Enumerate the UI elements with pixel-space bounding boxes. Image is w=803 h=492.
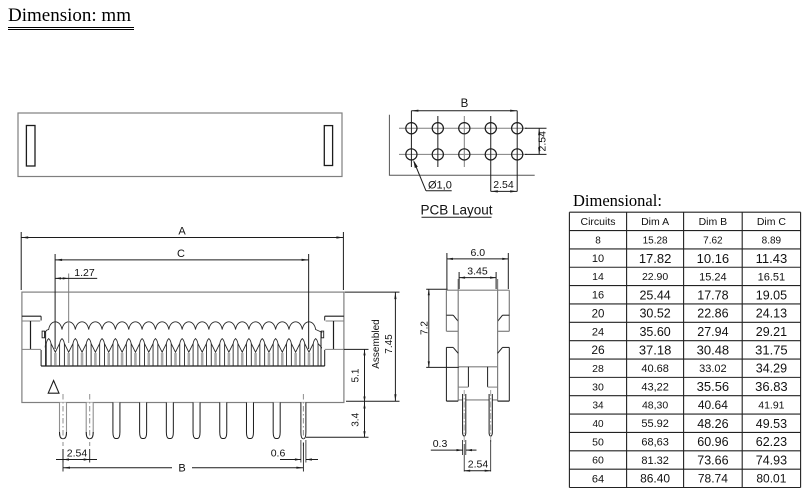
front view: bottom pins row (60, 403, 94, 439)
top view: right polarizing slot (324, 126, 332, 166)
side view: inner walls (457, 279, 459, 401)
svg-text:17.82: 17.82 (639, 251, 672, 266)
pcb hole pad row1 col5 (512, 123, 523, 134)
svg-text:37.18: 37.18 (639, 343, 672, 358)
pcb row centerline top (399, 127, 527, 129)
pcb hole pad row2 col3 (459, 149, 470, 160)
pcb hole pad row1 col1 (406, 123, 417, 134)
side dim 3.45 line (459, 277, 496, 279)
svg-text:62.23: 62.23 (756, 435, 787, 449)
svg-text:40.64: 40.64 (698, 398, 728, 412)
svg-text:Dim A: Dim A (641, 216, 669, 228)
front dim 5.1 line (364, 349, 366, 402)
svg-text:17.78: 17.78 (697, 288, 728, 302)
title: Dimension: mm (8, 5, 134, 27)
svg-text:7.45: 7.45 (384, 334, 395, 354)
svg-text:3.4: 3.4 (351, 412, 362, 426)
side dim 7.2 line (428, 289, 430, 367)
table heading (573, 191, 662, 211)
svg-text:43,22: 43,22 (641, 382, 669, 394)
pcb column centerline 3 (463, 116, 465, 167)
side dim 7.2 extension lines (426, 288, 447, 290)
svg-text:2.54: 2.54 (67, 448, 88, 460)
svg-text:2.54: 2.54 (493, 179, 514, 191)
svg-text:2.54: 2.54 (537, 131, 549, 152)
pcb row centerline bottom (399, 153, 527, 155)
front dim 2.54 extension lines (62, 449, 64, 463)
pcb hole diameter callout underline (426, 190, 452, 192)
svg-text:31.75: 31.75 (755, 343, 788, 358)
side dim 2.54 line (464, 470, 491, 472)
svg-text:C: C (177, 248, 185, 260)
svg-text:15.28: 15.28 (643, 235, 668, 246)
svg-text:19.05: 19.05 (756, 288, 787, 302)
svg-text:Assembled: Assembled (371, 319, 382, 368)
svg-text:30: 30 (592, 381, 604, 393)
svg-text:40: 40 (592, 419, 604, 430)
svg-text:68,63: 68,63 (641, 437, 669, 449)
svg-text:Dim B: Dim B (699, 216, 728, 228)
svg-text:2.54: 2.54 (468, 458, 489, 470)
svg-text:29.21: 29.21 (756, 325, 787, 339)
svg-text:40.68: 40.68 (641, 363, 669, 375)
dimensional table grid (569, 212, 800, 487)
svg-text:16.51: 16.51 (758, 271, 786, 283)
front view: first pins tip shading (60, 432, 67, 439)
svg-text:30.48: 30.48 (697, 343, 730, 358)
svg-text:14: 14 (592, 271, 604, 283)
pcb hole pad row2 col4 (485, 149, 496, 160)
svg-text:48,30: 48,30 (642, 400, 668, 412)
svg-text:49.53: 49.53 (756, 417, 787, 431)
svg-text:0.3: 0.3 (433, 438, 448, 450)
front dim assembled extension lines (345, 291, 400, 293)
front dim 2.54 line (56, 459, 97, 461)
front dim A extension lines (20, 232, 22, 290)
side view: top block outline (446, 289, 509, 291)
side view: inner cavity details (458, 366, 497, 368)
front dim 5.1 extension line (344, 348, 369, 350)
front dim B extension lines (62, 449, 64, 472)
pcb hole pad row1 col4 (485, 123, 496, 134)
svg-text:55.92: 55.92 (641, 418, 669, 430)
pcb hole pad row1 col2 (432, 123, 443, 134)
svg-text:80.01: 80.01 (756, 472, 786, 486)
svg-text:24: 24 (592, 327, 604, 339)
svg-text:11.43: 11.43 (756, 251, 788, 266)
svg-text:41.91: 41.91 (758, 400, 784, 412)
pcb dim 2.54 bottom line (491, 190, 517, 192)
svg-text:6.0: 6.0 (470, 247, 485, 259)
svg-text:35.56: 35.56 (697, 379, 730, 394)
side dim 3.45 extension lines (458, 272, 460, 289)
svg-text:64: 64 (592, 473, 604, 485)
front dim 0.6 extension lines (300, 440, 302, 463)
svg-text:25.44: 25.44 (639, 288, 670, 302)
svg-text:B: B (461, 98, 469, 110)
pcb dimension B line (411, 110, 517, 112)
front dim C line (55, 259, 309, 261)
svg-text:74.93: 74.93 (756, 454, 787, 468)
side dim 6.0 extension lines (446, 253, 448, 289)
front view: wire scallop profile row (45, 322, 323, 333)
svg-text:0.6: 0.6 (271, 448, 286, 460)
svg-text:PCB Layout: PCB Layout (420, 203, 492, 218)
svg-text:34: 34 (592, 401, 604, 412)
front dim 1.27 extension line (68, 274, 70, 344)
svg-text:78.74: 78.74 (698, 472, 728, 486)
svg-text:10.16: 10.16 (697, 251, 730, 266)
front view: IDC contact teeth row (44, 339, 323, 366)
svg-text:Dim C: Dim C (757, 216, 787, 228)
pcb hole pad row2 col1 (406, 149, 417, 160)
svg-text:81.32: 81.32 (641, 455, 669, 467)
svg-text:Ø1,0: Ø1,0 (428, 179, 452, 191)
svg-text:7.62: 7.62 (703, 235, 723, 246)
front view: connector body outline (22, 292, 344, 402)
pcb hole pad row2 col5 (512, 149, 523, 160)
svg-text:86.40: 86.40 (640, 472, 670, 486)
pcb dim 2.54 vertical line (538, 128, 540, 154)
svg-text:26: 26 (591, 343, 605, 357)
svg-text:Circuits: Circuits (580, 216, 615, 228)
front dim 3.4 extension line (306, 436, 369, 438)
svg-text:34.29: 34.29 (756, 362, 787, 376)
svg-text:22.86: 22.86 (697, 307, 728, 321)
svg-text:20: 20 (592, 308, 605, 320)
pcb hole pad row2 col2 (432, 149, 443, 160)
svg-text:60: 60 (592, 455, 604, 467)
svg-text:A: A (178, 226, 186, 238)
front view: left latch tab (22, 315, 41, 317)
pcb column centerline 1 (410, 111, 412, 167)
svg-text:60.96: 60.96 (697, 435, 728, 449)
front view: contact chamber walls and base (45, 331, 47, 366)
side view: bottom block outline (446, 346, 453, 348)
top view: left polarizing slot (26, 126, 35, 167)
svg-text:24.13: 24.13 (756, 307, 787, 321)
pcb column centerline 5 (516, 111, 518, 192)
svg-text:1.27: 1.27 (74, 267, 95, 279)
svg-text:35.60: 35.60 (639, 325, 670, 339)
svg-text:5.1: 5.1 (351, 368, 362, 382)
svg-text:B: B (178, 463, 185, 475)
svg-text:36.83: 36.83 (755, 379, 788, 394)
svg-text:48.26: 48.26 (697, 417, 728, 431)
front dim 3.4 line (364, 403, 366, 438)
svg-text:8: 8 (595, 235, 601, 246)
side dim 0.3 leader (431, 449, 463, 451)
svg-text:15.24: 15.24 (699, 271, 727, 283)
top view: connector cover strip body (18, 113, 342, 177)
svg-text:33.02: 33.02 (699, 363, 727, 375)
front dim 1.27 line (55, 277, 97, 279)
front dim A line (21, 237, 343, 239)
svg-text:22.90: 22.90 (642, 271, 668, 283)
side pin extension lines (462, 440, 464, 455)
svg-text:3.45: 3.45 (467, 266, 488, 278)
svg-text:28: 28 (592, 363, 604, 375)
side view: upper side notches (446, 314, 453, 316)
pcb hole pad row1 col3 (459, 123, 470, 134)
svg-text:73.66: 73.66 (697, 454, 728, 468)
svg-text:50: 50 (592, 436, 604, 448)
pcb dim 2.54 vertical extension lines (525, 127, 547, 129)
svg-text:16: 16 (592, 290, 604, 302)
pcb column centerline 4 (490, 116, 492, 191)
front dim assembled line (394, 292, 396, 401)
side dim 6.0 line (447, 258, 508, 260)
front view: pin centerlines (62, 394, 64, 446)
front view: right latch tab (325, 315, 344, 317)
svg-text:10: 10 (592, 253, 604, 265)
pcb hole diameter callout leader arrow (414, 162, 426, 191)
front view: polarity triangle mark (48, 381, 59, 394)
front dim 0.6 leader (280, 459, 301, 461)
svg-text:7.2: 7.2 (419, 321, 430, 335)
svg-text:27.94: 27.94 (697, 325, 728, 339)
pcb board corner edge (389, 115, 534, 176)
svg-text:30.52: 30.52 (639, 307, 670, 321)
side view: pins (463, 394, 466, 436)
front dim C extension lines (54, 254, 56, 349)
svg-text:8.89: 8.89 (762, 235, 782, 246)
pcb column centerline 2 (437, 116, 439, 167)
front dim B line (63, 467, 172, 469)
